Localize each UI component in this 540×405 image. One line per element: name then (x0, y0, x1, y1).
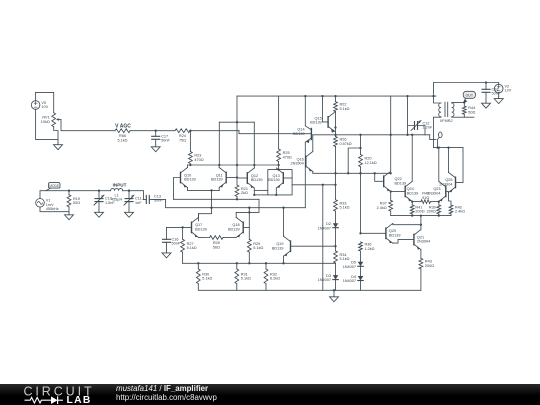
svg-text:R422.4kΩ: R422.4kΩ (455, 205, 465, 213)
junction input node C11 (128, 190, 130, 192)
wire C12 left lead (408, 96, 415, 135)
svg-text:V510V: V510V (41, 101, 48, 109)
resistor R29 5.1k (247, 239, 263, 252)
diode D4 1N4007 (343, 275, 364, 283)
svg-text:Q162N3904: Q162N3904 (290, 157, 303, 165)
capacitor C18 50nF (482, 87, 501, 95)
junction Q23 emitter / R40 (438, 200, 440, 202)
svg-text:Q17BD139: Q17BD139 (195, 223, 207, 231)
junction R20 column / link (359, 147, 361, 149)
wire emitter row Q10-Q11 (188, 189, 220, 191)
wire row T2 to Q22 collector (375, 172, 391, 174)
junction row I / Q19 emitter (282, 262, 284, 264)
junction row T2 / R26 (334, 172, 336, 174)
wire RV1 bottom to ground (54, 127, 58, 143)
wire Q19 emitter to row I (283, 256, 285, 263)
junction R21 / row C (236, 198, 238, 200)
svg-text:Q252N3904: Q252N3904 (439, 178, 452, 186)
resistor R40 91 (421, 192, 431, 204)
wire C18 top lead (485, 83, 487, 90)
potentiometer RV1 10k (41, 113, 56, 127)
wire tank bottom row K (434, 147, 464, 149)
wire Q20 collector link (393, 224, 421, 225)
ground below C10 (95, 210, 104, 218)
junction row I / R31 (236, 262, 238, 264)
svg-text:D31N4007: D31N4007 (318, 274, 331, 282)
junction bias column / row T2 (359, 172, 361, 174)
wire Q17 emitter to R28 (199, 236, 210, 238)
svg-text:Q212N3904: Q212N3904 (417, 235, 430, 243)
variable capacitor C10 (94, 191, 115, 210)
resistor R41 200 (410, 205, 424, 214)
wire R33 to D2 (335, 211, 337, 223)
junction emitter rail / R41 (411, 214, 413, 216)
svg-text:V212V: V212V (505, 84, 512, 92)
wire Q20 base row G (361, 232, 386, 234)
wire R25 bottom lead (278, 162, 280, 170)
capacitor C16 50nF (163, 237, 181, 245)
svg-text:R361.2kΩ: R361.2kΩ (365, 243, 375, 251)
wire D5 to D4 (360, 266, 362, 276)
svg-text:C1650nF: C1650nF (172, 237, 181, 245)
footer title text (116, 384, 217, 402)
junction Q22 emitter / Q24 base (390, 190, 392, 192)
diode D2 1N4007 (318, 222, 339, 230)
wire Q12 base to cross-couple (237, 177, 247, 179)
svg-text:Q14BD139: Q14BD139 (293, 128, 305, 136)
svg-text:R345.1kΩ: R345.1kΩ (340, 253, 350, 261)
svg-text:LAB: LAB (67, 395, 92, 405)
junction T1 / Q22 collector (390, 134, 392, 136)
junction row D tap (210, 207, 212, 209)
svg-text:RV110kΩ: RV110kΩ (41, 116, 50, 124)
resistor R24 75 (175, 129, 190, 143)
voltage source V5 10V (31, 101, 48, 110)
wire R32 bottom lead (265, 284, 267, 291)
transistor Q21 2N3904 (414, 230, 430, 250)
transistor Q15 BD139 (310, 112, 335, 133)
svg-text:INPUT: INPUT (113, 182, 127, 187)
svg-text:Q15BD139: Q15BD139 (310, 116, 322, 124)
junction row D / Q18 base drop (248, 207, 250, 209)
wire row D down to Q17 collector (199, 208, 212, 221)
junction emitter row tap (210, 189, 212, 191)
wire D3 to ground rail (335, 280, 337, 291)
transformer XFMR2 (439, 102, 454, 123)
wire Q10 collector (187, 165, 189, 168)
resistor R25 470 collector load (277, 149, 292, 162)
svg-text:D51N4007: D51N4007 (343, 261, 356, 269)
wire T1 to node flag (430, 135, 436, 140)
wire Q12 emitter link (254, 189, 267, 191)
wire C16 top lead (166, 227, 168, 239)
wire Q10 base (174, 178, 180, 200)
resistor R43 200 (419, 258, 434, 269)
svg-text:R372.4kΩ: R372.4kΩ (377, 202, 387, 210)
svg-text:Q18BD139: Q18BD139 (228, 223, 240, 231)
junction bias column / Q19 base (334, 245, 336, 247)
wire row C Q10 base bias (174, 198, 260, 200)
wire R44 bottom lead (463, 114, 465, 117)
junction column / Q15 emitter (334, 126, 336, 128)
wire V AGC rail middle (130, 130, 175, 132)
junction node row / box mid (236, 164, 238, 166)
junction column / row T1 (334, 134, 336, 136)
wire Q23 base stub (446, 190, 448, 192)
svg-text:R212kΩ: R212kΩ (241, 187, 248, 195)
svg-text:C111nF: C111nF (135, 197, 142, 205)
voltage source V2 12V (494, 84, 511, 93)
svg-text:V AGC: V AGC (115, 124, 131, 130)
svg-text:Q19BD139: Q19BD139 (272, 242, 284, 250)
wire C12 right to row T1 (418, 126, 426, 135)
wire V1 bottom to input ground (40, 207, 69, 212)
wire V5 top to RV1 top (36, 92, 54, 112)
wire C11 node to C13 (129, 191, 144, 200)
wire side column to ground rail (322, 185, 324, 290)
wire R27 bottom to row I (182, 252, 184, 263)
junction link / R33 column (334, 184, 336, 186)
svg-text:R335.1kΩ: R335.1kΩ (340, 201, 350, 209)
wire rail drop to Q15 base (323, 96, 328, 122)
ground below R19 (65, 212, 74, 220)
svg-text:V11mV455kHz: V11mV455kHz (46, 199, 59, 212)
svg-text:MODE: MODE (49, 184, 59, 188)
junction box top center (236, 121, 238, 123)
svg-text:R39200Ω: R39200Ω (427, 205, 436, 213)
junction V2 rail / C18 (485, 81, 487, 83)
wire R31 bottom lead (236, 284, 238, 291)
wire R21 bottom to row C (236, 197, 238, 200)
resistor R33 5.1k (334, 200, 350, 211)
ground below RV1 (54, 142, 63, 150)
transistor Q11 BD139 (211, 168, 226, 188)
wire Q18 collector to row E (235, 212, 237, 217)
wire input rail to L1 (99, 190, 111, 192)
resistor R42 2.4k (449, 205, 465, 214)
wire C17 bottom lead (155, 139, 157, 144)
wire Q12 emitter to row B (253, 188, 255, 195)
transistor Q24 BD139 (405, 181, 418, 201)
diode D3 1N4007 (318, 274, 339, 282)
wire secondary top to R44 (452, 102, 465, 104)
svg-text:R23470Ω: R23470Ω (194, 154, 203, 162)
wire C18 bottom lead (485, 92, 487, 101)
wire row I bias node (183, 262, 336, 264)
resistor R30 5.1k (196, 269, 212, 284)
junction T2 / Q22 collector (390, 172, 392, 174)
wire Q22 emitter to R37 (390, 192, 392, 201)
wire R22 bottom to R26 column (335, 112, 337, 137)
junction emitter rail / Q21 collector (420, 214, 422, 216)
junction rail / Q15 base column (321, 95, 323, 97)
resistor R26 0.57k (334, 137, 352, 147)
wire R27 top lead (182, 227, 184, 239)
wire Q23 collector to tank row K (438, 148, 440, 182)
svg-text:Q10BD139: Q10BD139 (184, 173, 196, 181)
svg-text:R1950Ω: R1950Ω (73, 197, 80, 205)
junction supply rail end (432, 95, 434, 97)
svg-text:C1850nF: C1850nF (492, 87, 501, 95)
wire Q17 base row (167, 226, 191, 228)
wire Q25 base feedback (456, 148, 463, 183)
wire T2 step to Q22 base (375, 173, 384, 181)
capacitor C17 50nF (152, 134, 171, 142)
junction input node R19 (68, 190, 70, 192)
junction T2 / base step (374, 172, 376, 174)
svg-text:R2856Ω: R2856Ω (213, 241, 220, 249)
transistor Q12 BD139 (247, 168, 262, 188)
voltage source V1 sine 455kHz (36, 199, 59, 212)
svg-text:L1455µH: L1455µH (111, 193, 123, 201)
resistor R20 12.1k (359, 155, 377, 167)
svg-text:R295.1kΩ: R295.1kΩ (253, 242, 263, 250)
ground below C17 (151, 144, 160, 152)
capacitor C13 50nF coupling (143, 194, 163, 203)
wire R19 bottom lead (68, 207, 70, 212)
wire Q19 base to diode bias column (291, 245, 336, 247)
svg-text:D41N4007: D41N4007 (343, 275, 356, 283)
variable capacitor C11 (124, 191, 142, 210)
wire Q16 emitter to row T2 (312, 172, 314, 174)
junction R23 / Q10 collector (189, 164, 191, 166)
wire V1 top lead (40, 191, 69, 199)
svg-text:C1350nF: C1350nF (154, 194, 163, 202)
junction row I / R30 (197, 262, 199, 264)
wire rail drop to Q14 collector (304, 96, 306, 126)
wire row D drop to Q18 base (248, 208, 250, 228)
wire D2 to R34 (335, 228, 337, 251)
wire row T2 Q16 emitter to Q22 base (313, 172, 375, 174)
wire Q25 collector to tank row (448, 148, 450, 173)
wire Q10 emitter (187, 188, 189, 191)
svg-text:Q232N3904: Q232N3904 (427, 187, 440, 195)
svg-text:C1750nF: C1750nF (161, 134, 170, 142)
junction secondary top / OUT (463, 101, 465, 103)
wire Q24 collector to row T1 (411, 135, 413, 181)
junction node row / box right (253, 164, 255, 166)
transistor Q13 BD139 (268, 168, 283, 188)
ground main rail (330, 290, 339, 302)
wire C13 to row D (153, 199, 306, 207)
transistor Q25 2N3904 (439, 172, 455, 192)
wire R39 bottom to emitter rail (438, 214, 440, 216)
transistor Q10 BD139 (181, 168, 196, 188)
wire T2 link up to R20 column (348, 148, 360, 173)
wire V2 top lead (498, 83, 500, 85)
junction V AGC / C17 (155, 130, 157, 132)
wire V2 bottom lead (498, 93, 500, 97)
wire R26 bottom to row T2 (335, 147, 337, 174)
inductor L1 INPUT (111, 182, 127, 201)
resistor R19 50 input termination (67, 195, 80, 207)
ground below C11 (125, 210, 134, 218)
wire Q23 emitter node (438, 202, 440, 205)
resistor R39 200 (427, 205, 441, 214)
wire emitter row down to row D (211, 190, 213, 207)
junction bias column / row G (359, 232, 361, 234)
wire row T1 tank feed (313, 134, 430, 136)
wire Q24 emitter node (411, 202, 413, 205)
resistor R21 2k (235, 185, 248, 197)
transistor Q22 BD139 (384, 171, 406, 191)
variable capacitor C12 1.2nF (411, 121, 433, 131)
svg-text:D21N4007: D21N4007 (318, 222, 331, 230)
diode D5 1N4007 (343, 261, 364, 269)
transistor Q16 2N3904 (290, 152, 312, 172)
wire R37 bottom to emitter rail (390, 211, 392, 216)
wire Q21 emitter to R43 (420, 250, 422, 259)
wire R20 bottom lead / bias column (360, 167, 362, 234)
wire Q18 base (244, 227, 250, 239)
wire box left vertical to R23 node (218, 122, 220, 165)
resistor R34 5.1k (334, 251, 350, 263)
transistor Q17 BD139 (192, 217, 207, 237)
resistor R28 56 (210, 236, 223, 250)
wire V5 plus lead (35, 92, 37, 100)
wire C17 top lead (155, 131, 157, 137)
wire output stage emitter rail (391, 215, 451, 217)
junction T2 / link (347, 172, 349, 174)
resistor R66 5.1k on V AGC rail (115, 129, 130, 143)
wire RV1 wiper to V AGC rail (61, 120, 115, 131)
ground below C16 (162, 250, 171, 258)
wire Q11 base to cross-couple (227, 177, 237, 179)
wire C16 bottom lead (166, 242, 168, 250)
wire Q16 collector to row T1 (312, 135, 314, 152)
junction node row / R25 (277, 164, 279, 166)
wire Q24 base (391, 191, 405, 193)
wire Q13 base to box right (284, 177, 292, 179)
svg-text:R275.1kΩ: R275.1kΩ (187, 242, 197, 250)
wire Q11 emitter (218, 188, 220, 191)
junction Q24 emitter / R40 (411, 200, 413, 202)
wire V5 minus lead down (36, 109, 58, 139)
svg-text:OUT: OUT (466, 94, 474, 98)
flag MODE at input (46, 183, 60, 191)
svg-text:R305.1kΩ: R305.1kΩ (202, 272, 212, 280)
wire link Q13 box to bias chain (292, 184, 335, 186)
flag OUT output (463, 91, 475, 102)
wire R25 top from supply rail (278, 96, 280, 149)
wire row B (254, 194, 267, 196)
junction T1 / Q24 collector (411, 134, 413, 136)
transistor Q23 2N3904 (427, 181, 446, 201)
svg-text:R225.1kΩ: R225.1kΩ (340, 103, 350, 111)
junction emitter rail / R39 (438, 214, 440, 216)
wire box mid vertical to R21 (236, 122, 238, 185)
junction row I / R32 (265, 262, 267, 264)
wire AGC extension to Q14 base (239, 131, 311, 134)
wire input rail to C10 (69, 190, 99, 192)
wire rail drop to cross-couple box (236, 96, 238, 122)
svg-text:Q20BD139: Q20BD139 (389, 229, 401, 237)
resistor R31 5.1k (235, 269, 251, 284)
transistor Q18 BD139 (228, 217, 243, 237)
resistor R27 5.1k (181, 239, 197, 252)
wire secondary bottom to R44 (452, 116, 465, 118)
junction row B / Q13 emitter (275, 194, 277, 196)
ground below C18 (482, 101, 491, 108)
wire R23 bottom node row (188, 164, 279, 166)
wire top supply rail (237, 95, 436, 97)
wire Q19 collector to row D (283, 208, 285, 237)
wire Q11 collector (218, 165, 220, 168)
wire cross-couple box top (219, 121, 254, 123)
resistor R37 2.4k (377, 200, 393, 211)
wire R40 right lead (431, 201, 439, 203)
svg-text:R25470Ω: R25470Ω (283, 151, 292, 159)
wire R43 bottom to ground rail (420, 269, 422, 290)
node flag tank (438, 132, 443, 148)
wire V2 supply rail (434, 82, 499, 84)
junction row I / R29 (248, 262, 250, 264)
wire R36 bottom to D5 (360, 251, 362, 262)
wire R44 bottom stub (464, 116, 474, 118)
junction T1 / C12 column (406, 134, 408, 136)
junction T1 / R20 (359, 134, 361, 136)
wire R34 to D3 (335, 263, 337, 275)
svg-text:Q24BD139: Q24BD139 (407, 187, 419, 195)
svg-text:R260.57kΩ: R260.57kΩ (340, 138, 352, 146)
wire R23 top lead (189, 131, 191, 152)
potentiometer RV1 wiper arrow (56, 118, 61, 121)
junction ground rail / ground symbol (333, 289, 335, 291)
svg-text:R41200Ω: R41200Ω (415, 205, 424, 213)
wire box right vertical to Q12 collector (253, 122, 255, 168)
wire Q22 collector to supply rail (390, 96, 392, 171)
wire R33 chain top (335, 173, 337, 199)
svg-text:R2475Ω: R2475Ω (179, 134, 186, 142)
wire Q17 collector (198, 214, 200, 218)
wire primary bottom to tank row (434, 117, 442, 147)
wire Q25 emitter to R42 (449, 192, 452, 205)
junction Q17 base / R27 (181, 226, 183, 228)
wire Q21 collector (420, 216, 422, 230)
net label V AGC (115, 124, 131, 130)
junction R25 / box top (277, 168, 279, 170)
wire R41 bottom to emitter rail (411, 214, 413, 216)
svg-text:R2012.1kΩ: R2012.1kΩ (365, 157, 377, 165)
junction row E / Q18 base drop (248, 211, 250, 213)
wire L1 to C11 (123, 190, 129, 192)
wire Q14 emitter column (304, 142, 306, 208)
wire V AGC rail to stage 1 (190, 130, 239, 132)
junction Q12 emitter / row B (253, 194, 255, 196)
junction row D / Q19 collector (282, 207, 284, 209)
wire R40 left lead (412, 201, 421, 203)
wire R32 top lead (265, 263, 267, 269)
svg-text:R665.1kΩ: R665.1kΩ (117, 134, 127, 142)
svg-text:Q11BD139: Q11BD139 (211, 173, 223, 181)
junction node row / box left (218, 164, 220, 166)
junction input node C10 (98, 190, 100, 192)
wire R29 bottom to row I (248, 252, 250, 263)
junction row K / flag column (436, 146, 438, 148)
junction collector link / Q21 (420, 224, 422, 226)
wire D4 to ground rail (360, 281, 362, 291)
junction rail / C12 column (406, 95, 408, 97)
resistor R32 6.2k (264, 269, 280, 284)
junction row K / Q23 collector (438, 146, 440, 148)
resistor R36 1.2k (359, 242, 375, 251)
wire R28 right to Q18 emitter (223, 237, 236, 239)
svg-text:Q22BD139: Q22BD139 (395, 177, 407, 185)
CircuitLab logo (20, 384, 140, 405)
ground below V2 (494, 96, 503, 103)
transistor Q20 BD139 (386, 223, 401, 243)
wire box around Q13 (268, 170, 292, 195)
